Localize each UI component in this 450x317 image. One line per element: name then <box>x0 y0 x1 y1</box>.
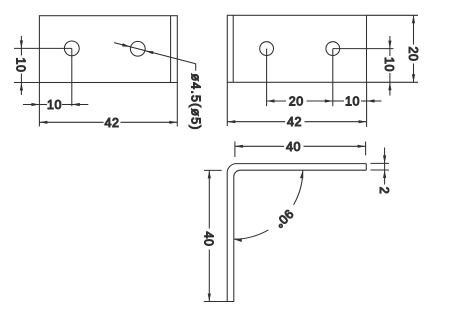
dim 42 right view <box>227 82 366 127</box>
dim text 42 left view <box>104 116 119 130</box>
right view hole H4 centerlines <box>333 49 394 107</box>
svg-text:2: 2 <box>377 187 391 195</box>
dim 20 vertical far right <box>367 15 418 82</box>
right view hole H3 centerline <box>266 49 268 107</box>
svg-text:10: 10 <box>47 98 62 112</box>
dim 40 top of L <box>235 142 366 158</box>
right view bend line <box>232 15 234 82</box>
leader text phi4.5(phi5) <box>189 74 203 131</box>
svg-text:ø4.5(ø5): ø4.5(ø5) <box>189 74 203 131</box>
dim 10 vertical right of right view <box>367 36 418 96</box>
svg-text:90°: 90° <box>272 207 296 231</box>
left view hole H1 centerlines <box>14 48 72 106</box>
dim text 20 below right view <box>289 95 304 109</box>
svg-text:40: 40 <box>202 231 216 246</box>
dim 10 vertical left <box>14 36 39 95</box>
right view hole H4 <box>326 42 340 56</box>
dim text 42 right view <box>287 115 302 129</box>
dim text 2 thickness <box>377 187 391 195</box>
svg-text:20: 20 <box>289 95 304 109</box>
dim text 10 horizontal left view <box>47 98 62 112</box>
dim text 10 vertical left <box>14 57 28 72</box>
angle text 90deg <box>272 207 296 231</box>
dim text 40 left of L <box>202 231 216 246</box>
leader line phi4.5(phi5) <box>114 43 196 71</box>
dim text 40 top of L <box>286 140 301 154</box>
right view hole H3 <box>260 42 274 56</box>
dim 2 thickness <box>371 148 390 185</box>
svg-text:40: 40 <box>286 140 301 154</box>
left view plate outline <box>39 16 177 83</box>
svg-text:10: 10 <box>345 95 360 109</box>
left view hole H2 <box>130 41 145 56</box>
angle arc 90 <box>234 170 303 242</box>
left view bend line <box>170 16 172 83</box>
right view plate outline <box>227 15 366 82</box>
L bracket bottom end / extension <box>204 301 234 303</box>
dim 40 left of L <box>204 170 222 301</box>
dim text 10 vertical right of right view <box>382 57 396 72</box>
left view hole H1 <box>64 41 79 56</box>
dim 20 below right view <box>267 99 333 102</box>
dim text 20 vertical far right <box>406 46 420 61</box>
L bracket outer profile <box>227 164 366 302</box>
svg-text:42: 42 <box>104 116 119 130</box>
L bracket inner profile <box>234 170 366 301</box>
dim 42 left view <box>39 83 177 127</box>
L bracket right end cap <box>365 164 367 171</box>
dim text 10 below right view <box>345 95 360 109</box>
dim 10 horizontal left view <box>23 83 88 127</box>
svg-text:10: 10 <box>382 57 396 72</box>
svg-text:20: 20 <box>406 46 420 61</box>
dim 10 below right view <box>333 99 382 102</box>
svg-text:10: 10 <box>14 57 28 72</box>
svg-text:42: 42 <box>287 115 302 129</box>
